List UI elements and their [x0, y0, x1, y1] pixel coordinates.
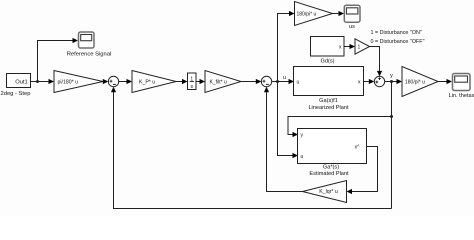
node u [276, 75, 286, 83]
gain K_lqr [303, 181, 347, 203]
svg-text:180/pi* u: 180/pi* u [405, 79, 425, 85]
wire gain 180/pi to scope us [333, 11, 345, 16]
svg-text:Estimated Plant: Estimated Plant [309, 171, 349, 177]
svg-text:Reference Signal: Reference Signal [67, 51, 111, 57]
svg-text:Ga*(s): Ga*(s) [323, 165, 339, 171]
node y [390, 73, 393, 83]
outport Out1 [1, 74, 31, 98]
wire Gd(s) to gain 1 [344, 44, 355, 49]
svg-text:y: y [390, 73, 393, 79]
svg-text:Linearized Plant: Linearized Plant [308, 105, 349, 111]
svg-text:180/pi* u: 180/pi* u [297, 11, 317, 17]
gain K_filt [205, 71, 241, 93]
svg-text:1 = Disturbance "ON": 1 = Disturbance "ON" [371, 30, 422, 36]
plant Ga(s)f1 Linearized Plant [294, 67, 364, 111]
wire branch up to Reference Signal scope [38, 38, 79, 82]
wire gain pi/180 to sum S1 [103, 79, 109, 84]
wire u branch up to gain 180/pi (us) [278, 11, 295, 82]
svg-text:pi/180* u: pi/180* u [58, 79, 79, 85]
gain 1 (disturbance switch) [355, 39, 370, 54]
sum S1 [108, 76, 118, 86]
estimated plant Ga*(s) [298, 129, 367, 178]
wire y feedback to estimated plant input y [288, 117, 392, 138]
svg-text:Gd(s): Gd(s) [321, 59, 335, 65]
svg-text:1: 1 [358, 45, 361, 51]
wire u branch down to estimated plant input u [278, 82, 299, 159]
wire estimated plant x^ to gain K_lqr [347, 147, 378, 195]
wire Out1 to gain pi/180 [31, 79, 55, 84]
sum S2 [261, 76, 271, 86]
block Gd(s) [311, 37, 345, 65]
gain 180/pi (output) [402, 67, 438, 97]
sum S3 [374, 76, 384, 86]
wire gain K_lqr to sum S2 [264, 87, 303, 192]
svg-text:Ga(s)f1: Ga(s)f1 [319, 98, 338, 104]
integrator 1/s [188, 73, 197, 90]
annotation disturbance ON/OFF [371, 30, 425, 45]
svg-text:K_filt* u: K_filt* u [210, 79, 227, 85]
svg-text:2deg - Step: 2deg - Step [1, 91, 31, 97]
wire gain K_P to integrator [176, 79, 188, 84]
gain pi/180 [54, 71, 103, 93]
gain 180/pi (us) [295, 2, 333, 26]
svg-text:u: u [301, 154, 304, 160]
scope us [344, 5, 360, 30]
node branch to Reference Signal [36, 80, 39, 83]
svg-text:us: us [349, 24, 355, 30]
svg-text:0 = Disturbance "OFF": 0 = Disturbance "OFF" [371, 39, 425, 45]
svg-text:K_lqr* u: K_lqr* u [319, 189, 338, 195]
svg-text:Out1: Out1 [15, 80, 28, 86]
svg-text:x^: x^ [355, 145, 361, 151]
wire sum S1 to gain K_P [119, 79, 132, 84]
wire gain K_filt to sum S2 [241, 79, 261, 84]
scope Lin. thetas [449, 74, 474, 100]
node y feedback branch [390, 115, 393, 118]
wire plant to sum S3 [364, 79, 375, 84]
svg-text:u: u [297, 80, 300, 86]
gain K_P [132, 71, 176, 93]
wire y feedback bottom to sum S1 [111, 87, 392, 209]
wire gain 1 down to sum S3 [370, 47, 383, 77]
wire gain 180/pi to scope Lin. thetas [438, 79, 452, 84]
wire integrator to gain K_filt [196, 79, 205, 84]
svg-text:Lin. thetas: Lin. thetas [449, 93, 474, 99]
svg-text:u: u [283, 75, 286, 81]
scope Reference Signal [67, 32, 111, 57]
wire sum S2 to plant (signal u) [272, 79, 294, 84]
svg-text:K_P* u: K_P* u [139, 79, 155, 85]
wire sum S3 to gain 180/pi output (signal y) [385, 79, 402, 84]
wire y feedback down [391, 82, 393, 209]
